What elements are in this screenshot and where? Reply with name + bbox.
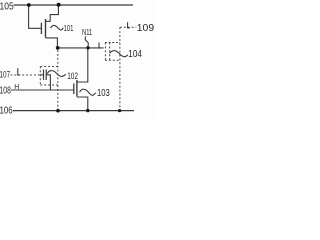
svg-text:107: 107 — [0, 69, 10, 80]
svg-text:109: 109 — [137, 23, 155, 34]
svg-text:104: 104 — [128, 49, 142, 60]
svg-text:H: H — [14, 84, 19, 91]
svg-text:102: 102 — [67, 71, 78, 81]
svg-text:103: 103 — [97, 88, 110, 99]
svg-text:101: 101 — [64, 24, 74, 33]
svg-text:108: 108 — [0, 85, 11, 96]
svg-text:N11: N11 — [82, 28, 93, 37]
svg-text:106: 106 — [0, 105, 13, 116]
svg-text:105: 105 — [0, 0, 14, 12]
